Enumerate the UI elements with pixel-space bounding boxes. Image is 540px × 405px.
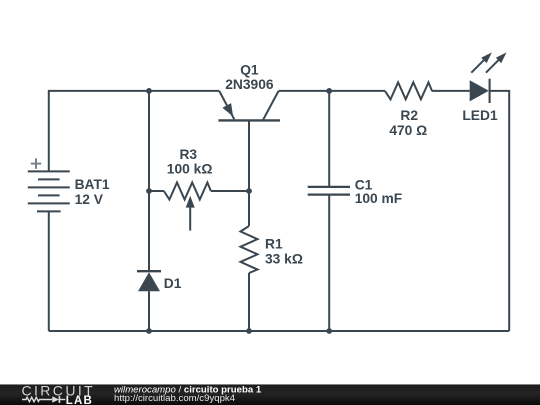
diode D1 triangle — [138, 272, 160, 291]
diode D1 cathode bar — [137, 270, 161, 272]
wire R2 to LED — [432, 90, 470, 92]
wire R1 top stub — [248, 191, 250, 226]
wire bottom rail — [49, 330, 509, 332]
svg-text:LAB: LAB — [66, 395, 93, 405]
wire C1 top stub — [328, 91, 330, 187]
resistor R1 — [241, 226, 258, 273]
potentiometer R3 wiper arrowhead — [186, 196, 195, 208]
wire LED to right side down — [490, 91, 509, 331]
wire top rail right — [279, 90, 385, 92]
node dot C1 top junction — [326, 88, 332, 94]
wire node A column (top to R3 left) — [148, 91, 150, 191]
LED1 emission arrowhead 2 — [496, 52, 507, 63]
CircuitLab logo diode triangle — [52, 396, 59, 403]
wire R3 left stub — [149, 190, 164, 192]
LED1 emission arrow 2 shaft — [486, 60, 499, 72]
node dot R3 left junction — [146, 188, 152, 194]
LED1 triangle — [470, 80, 489, 101]
node dot top-left junction — [146, 88, 152, 94]
wire top rail left — [49, 91, 219, 171]
capacitor C1 plates — [308, 186, 350, 188]
wire R3 junction to D1 — [148, 191, 150, 270]
wire R3 right stub — [211, 190, 249, 192]
node dot D1 bottom junction — [146, 328, 152, 334]
battery BAT1 — [28, 171, 70, 211]
potentiometer R3 wiper shaft — [189, 207, 191, 231]
wire base lead Q1 — [248, 120, 250, 191]
resistor R3 — [164, 183, 211, 200]
LED1 cathode bar — [489, 79, 491, 103]
transistor Q1 emitter lead — [219, 91, 234, 119]
wire battery negative to bottom — [48, 211, 50, 331]
node dot R1 bottom junction — [246, 328, 252, 334]
node dot C1 bottom junction — [326, 328, 332, 334]
wire C1 bottom stub — [328, 195, 330, 331]
CircuitLab logo schematic glyph — [22, 396, 65, 403]
resistor R2 — [385, 82, 432, 99]
transistor Q1 base bar — [218, 119, 280, 121]
wire R1 bottom stub — [248, 273, 250, 331]
transistor Q1 collector lead — [263, 91, 279, 121]
transistor Q1 emitter arrowhead — [222, 103, 233, 116]
node dot R3 right / base junction — [246, 188, 252, 194]
svg-text:http://circuitlab.com/c9yqpk4: http://circuitlab.com/c9yqpk4 — [114, 393, 236, 404]
battery BAT1 plus sign — [31, 158, 41, 168]
wire D1 to bottom rail — [148, 291, 150, 331]
LED1 emission arrow 1 shaft — [471, 60, 484, 72]
LED1 emission arrowhead 1 — [481, 52, 492, 63]
